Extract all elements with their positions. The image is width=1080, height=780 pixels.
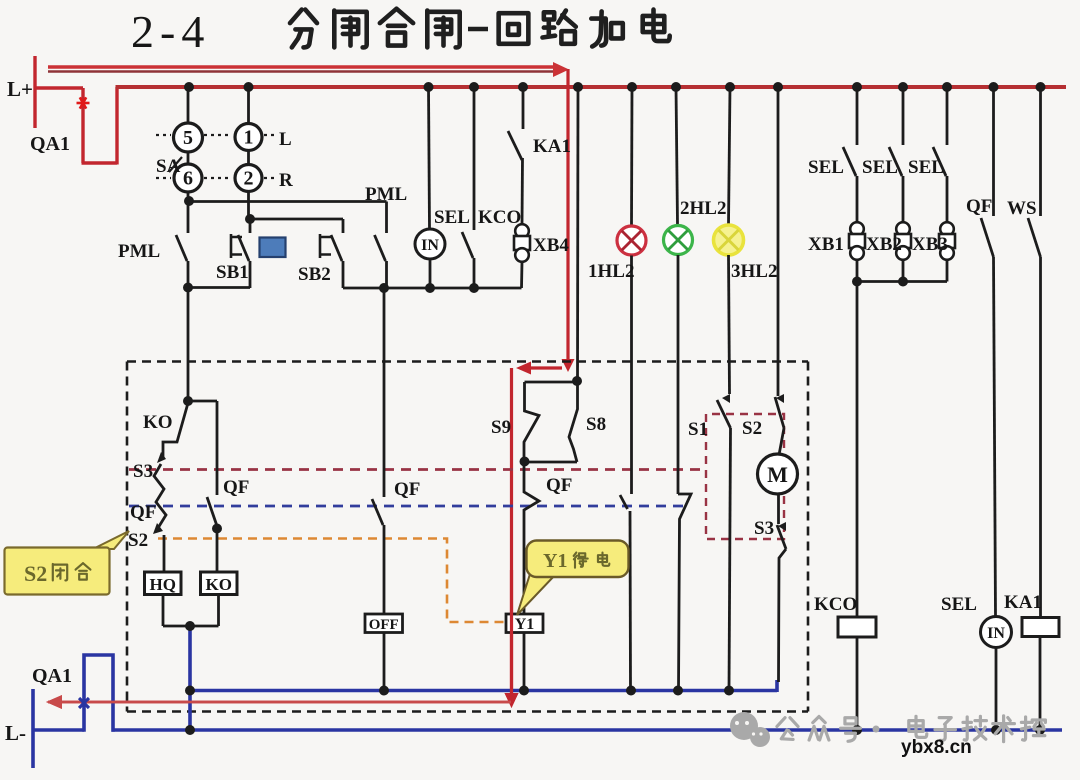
svg-text:SEL: SEL — [941, 594, 977, 615]
svg-text:HQ: HQ — [149, 575, 175, 594]
svg-text:L+: L+ — [7, 77, 33, 101]
svg-text:KA1: KA1 — [1004, 592, 1042, 613]
svg-text:KCO: KCO — [478, 207, 521, 228]
svg-text:R: R — [279, 170, 293, 191]
svg-text:SEL: SEL — [862, 157, 898, 178]
svg-text:XB4: XB4 — [533, 235, 569, 256]
svg-text:QF: QF — [966, 196, 992, 217]
svg-text:5: 5 — [183, 127, 193, 149]
svg-text:KO: KO — [205, 575, 231, 594]
svg-text:SA: SA — [156, 156, 181, 177]
svg-text:1: 1 — [244, 127, 254, 149]
svg-text:IN: IN — [421, 237, 439, 254]
svg-text:S8: S8 — [586, 414, 606, 435]
svg-text:OFF: OFF — [369, 617, 399, 633]
svg-text:L-: L- — [5, 721, 26, 745]
svg-text:SEL: SEL — [908, 157, 944, 178]
svg-text:QF: QF — [223, 477, 249, 498]
svg-text:XB1: XB1 — [808, 234, 844, 255]
svg-text:6: 6 — [183, 168, 193, 190]
svg-text:S2: S2 — [742, 418, 762, 439]
svg-text:2-4: 2-4 — [131, 6, 210, 57]
svg-text:1HL2: 1HL2 — [588, 261, 634, 282]
svg-text:Y1: Y1 — [543, 550, 567, 572]
svg-text:2: 2 — [244, 168, 254, 190]
svg-text:SB2: SB2 — [298, 264, 331, 285]
svg-text:SB1: SB1 — [216, 262, 249, 283]
svg-text:QA1: QA1 — [30, 133, 70, 155]
svg-text:M: M — [767, 462, 788, 487]
svg-text:L: L — [279, 129, 292, 150]
svg-text:QA1: QA1 — [32, 665, 72, 687]
svg-text:KA1: KA1 — [533, 136, 571, 157]
svg-text:S3: S3 — [133, 461, 153, 482]
svg-text:PML: PML — [118, 241, 160, 262]
svg-text:WS: WS — [1007, 198, 1037, 219]
svg-text:Y1: Y1 — [515, 616, 535, 633]
svg-text:S9: S9 — [491, 417, 511, 438]
svg-text:ybx8.cn: ybx8.cn — [901, 737, 972, 758]
svg-text:SEL: SEL — [808, 157, 844, 178]
svg-text:2HL2: 2HL2 — [680, 198, 726, 219]
svg-text:SEL: SEL — [434, 207, 470, 228]
svg-text:S2: S2 — [24, 561, 47, 586]
svg-text:S1: S1 — [688, 419, 708, 440]
svg-text:QF: QF — [130, 502, 156, 523]
svg-text:3HL2: 3HL2 — [731, 261, 777, 282]
svg-text:QF: QF — [394, 479, 420, 500]
svg-text:XB2: XB2 — [866, 234, 902, 255]
svg-text:S2: S2 — [128, 530, 148, 551]
svg-text:QF: QF — [546, 475, 572, 496]
svg-text:S3: S3 — [754, 518, 774, 539]
svg-text:PML: PML — [365, 184, 407, 205]
svg-text:KO: KO — [143, 412, 173, 433]
svg-text:XB3: XB3 — [912, 234, 948, 255]
svg-text:KCO: KCO — [814, 594, 857, 615]
svg-text:IN: IN — [987, 625, 1005, 642]
